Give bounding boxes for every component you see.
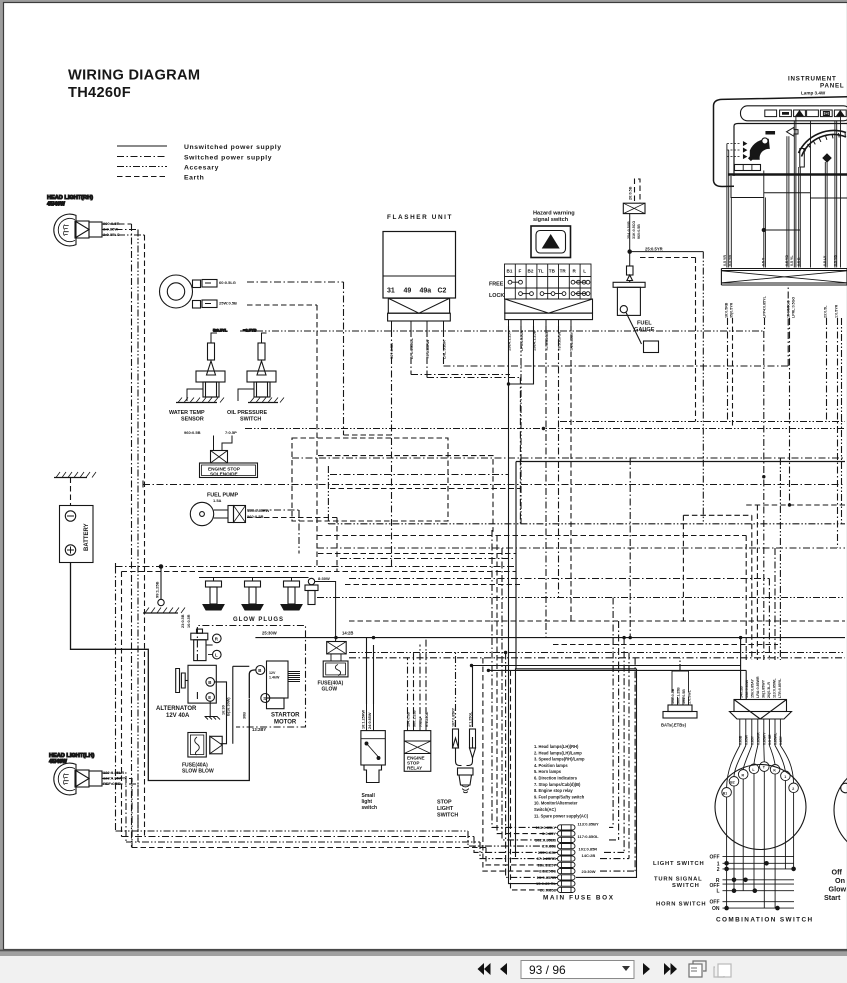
svg-text:60:0.5LG: 60:0.5LG [219, 280, 236, 285]
svg-text:Switched power supply: Switched power supply [184, 155, 272, 162]
wire earth y535 [317, 536, 746, 661]
svg-text:8. Engine stop relay: 8. Engine stop relay [534, 788, 573, 793]
svg-text:Earth: Earth [184, 175, 204, 182]
fuel pump [190, 493, 269, 526]
FREE row contacts [508, 280, 512, 284]
box startor (dash-dot outline) [197, 626, 305, 728]
svg-text:16:0.5R: 16:0.5R [187, 614, 191, 628]
svg-text:101:0.85R: 101:0.85R [579, 847, 598, 852]
stop light switch [437, 653, 476, 819]
svg-text:PANEL: PANEL [820, 83, 845, 90]
page number box [521, 961, 634, 979]
R L connector [181, 614, 221, 660]
svg-text:R: R [742, 773, 745, 777]
wire combination feeds [741, 638, 747, 700]
svg-text:156:0.85AY: 156:0.85AY [751, 679, 755, 698]
svg-text:FUEL: FUEL [637, 321, 652, 327]
wire switched y578 [349, 579, 769, 661]
wire sender top [635, 179, 641, 203]
wire y553 y558 [318, 553, 516, 555]
glow plug 3 [281, 581, 302, 610]
panel connector bar [721, 269, 847, 286]
wire accessory trunk y421 [560, 421, 845, 423]
switch position rows [723, 856, 795, 908]
glow plug 2 [242, 581, 263, 610]
wire accessory trunk y523 [328, 466, 845, 524]
inner display area [734, 124, 847, 177]
wire horn feed 2 [247, 305, 317, 567]
svg-text:0.85WL: 0.85WL [774, 732, 778, 745]
terminal circles [722, 762, 799, 797]
svg-text:960:0.5B: 960:0.5B [247, 514, 264, 519]
svg-text:25W:0.5B: 25W:0.5B [219, 301, 237, 306]
small light switch [361, 638, 385, 811]
svg-text:B1: B1 [723, 791, 727, 795]
svg-text:GLOW PLUGS: GLOW PLUGS [233, 617, 284, 623]
svg-text:2: 2 [717, 867, 720, 873]
wire startor to fuse slow blow [233, 666, 250, 743]
page view icon 1 [689, 961, 706, 977]
svg-text:8:30W: 8:30W [318, 576, 330, 581]
wire small light switch feeds [367, 704, 374, 731]
last-page button [664, 963, 677, 975]
wire earth bus y566 [116, 566, 517, 568]
svg-text:STARTOR: STARTOR [271, 713, 300, 719]
engine stop solenoid [184, 430, 258, 478]
svg-text:WATER TEMP: WATER TEMP [169, 410, 205, 416]
water temp sensor [169, 328, 228, 423]
key switch (clipped at right) [824, 764, 847, 902]
svg-text:0.5 YR: 0.5 YR [723, 255, 727, 266]
svg-text:Switch(AC): Switch(AC) [534, 807, 556, 812]
svg-text:7. Stop lamps/Cab(d)(B): 7. Stop lamps/Cab(d)(B) [534, 782, 581, 787]
svg-text:9. Fuel pump/Safty switch: 9. Fuel pump/Safty switch [534, 794, 585, 799]
svg-text:F: F [519, 269, 522, 274]
glow plug 4 [305, 578, 318, 604]
wire sensor line [240, 330, 764, 332]
oil pressure switch [227, 328, 284, 423]
legend [117, 144, 282, 182]
wire horn feed 1 [247, 282, 344, 435]
svg-text:TL: TL [538, 269, 544, 274]
wire earth y505 / y515 [683, 505, 845, 660]
svg-text:1:0.5WL: 1:0.5WL [688, 689, 692, 704]
terminal drops [727, 771, 794, 908]
svg-text:30B: 30B [243, 712, 247, 719]
svg-text:OFF: OFF [710, 900, 720, 906]
svg-text:93 / 96: 93 / 96 [529, 963, 566, 977]
toolbar strip [0, 956, 847, 983]
svg-text:31K:0.5CO: 31K:0.5CO [632, 221, 636, 239]
startor motor [256, 661, 300, 726]
svg-text:113:0.85BY: 113:0.85BY [578, 822, 599, 827]
page view icon 2 [714, 964, 731, 977]
svg-text:49: 49 [404, 288, 412, 295]
svg-text:FREE: FREE [489, 282, 504, 288]
svg-text:Hazard warning: Hazard warning [533, 211, 575, 217]
hazard contact table [505, 264, 592, 299]
svg-text:L: L [716, 889, 719, 895]
wire headlight RH drops [131, 224, 133, 848]
svg-text:Unswitched power supply: Unswitched power supply [184, 144, 282, 151]
svg-text:0.5 YB: 0.5 YB [728, 255, 732, 266]
hazard warning signal switch [489, 211, 593, 352]
speedometer arc [799, 131, 847, 153]
svg-text:OFF: OFF [710, 854, 720, 860]
fuses [558, 825, 576, 893]
svg-text:3. Speed lamps(RH)/Lamp: 3. Speed lamps(RH)/Lamp [534, 757, 585, 762]
svg-text:16:30: 16:30 [222, 705, 226, 715]
legend line: switched power supply [117, 156, 167, 158]
svg-text:49a: 49a [420, 288, 432, 295]
fuse row feeds from above [492, 530, 557, 827]
turn indicator arrow [787, 127, 799, 136]
svg-text:STOP: STOP [437, 800, 452, 806]
svg-text:10. Monitor/Altermeter: 10. Monitor/Altermeter [534, 801, 578, 806]
svg-text:LIGHT SWITCH: LIGHT SWITCH [653, 861, 704, 867]
instrument panel [714, 76, 847, 319]
svg-text:113:0.85WL: 113:0.85WL [773, 678, 777, 698]
LOCK row contacts [519, 292, 523, 296]
svg-text:12V: 12V [269, 671, 276, 675]
wire headlight LH feeds [102, 773, 138, 848]
wire engine stop relay feeds [408, 638, 427, 728]
svg-text:6. Direction indicators: 6. Direction indicators [534, 776, 578, 781]
svg-text:B2: B2 [528, 269, 534, 274]
wire earth y644 [553, 644, 778, 646]
fan wires into switch [727, 746, 794, 788]
svg-text:0.5 B: 0.5 B [797, 257, 801, 266]
svg-text:960:0.5B: 960:0.5B [184, 430, 201, 435]
horn [160, 275, 238, 308]
fuse (40A) glow [318, 642, 349, 693]
svg-text:FLASHER UNIT: FLASHER UNIT [387, 214, 453, 221]
svg-text:7:0.5P: 7:0.5P [225, 430, 237, 435]
svg-text:TH4260F: TH4260F [68, 85, 131, 101]
svg-text:25:0.5YR: 25:0.5YR [645, 247, 663, 252]
fuel gauge dial [750, 139, 770, 160]
fuse right label hooks [600, 598, 635, 872]
svg-text:5. Horn lamps: 5. Horn lamps [534, 769, 562, 774]
svg-text:E: E [208, 695, 211, 700]
svg-text:LPP4:0.85YL: LPP4:0.85YL [763, 295, 767, 318]
svg-text:LRA:0.85WR: LRA:0.85WR [756, 676, 760, 698]
svg-text:LPRL:0.5GO: LPRL:0.5GO [792, 297, 796, 318]
flasher unit [383, 214, 456, 359]
wire switched trunk y548 [317, 548, 845, 660]
svg-text:117:0.85GL: 117:0.85GL [578, 834, 600, 839]
svg-text:TB: TB [549, 269, 556, 274]
wire earth y621 [349, 620, 845, 622]
svg-text:99:1.25B: 99:1.25B [155, 581, 160, 598]
ground [176, 402, 217, 404]
svg-text:194:0.5B: 194:0.5B [682, 689, 686, 704]
svg-text:14C:2B: 14C:2B [582, 853, 596, 858]
svg-text:B: B [208, 680, 211, 685]
svg-text:23:30W: 23:30W [582, 869, 596, 874]
wire flasher drops [392, 285, 789, 567]
svg-text:0.5 YL: 0.5 YL [790, 255, 794, 266]
wire horn feed 1 tail [344, 434, 392, 436]
svg-text:LOCK: LOCK [489, 293, 504, 299]
svg-text:OIL PRESSURE: OIL PRESSURE [227, 410, 267, 416]
svg-text:TR: TR [560, 269, 567, 274]
svg-text:0.85B: 0.85B [739, 735, 743, 745]
svg-text:13:2BY: 13:2BY [252, 727, 266, 732]
svg-text:2. Head lamps(LH)/Lamp: 2. Head lamps(LH)/Lamp [534, 750, 582, 755]
svg-text:SOLENOIDE: SOLENOIDE [210, 472, 238, 477]
svg-text:GAUGE: GAUGE [634, 327, 655, 333]
svg-text:ON: ON [712, 906, 720, 912]
svg-text:BATTERY: BATTERY [84, 523, 90, 551]
svg-text:13A:0.85W: 13A:0.85W [745, 679, 749, 698]
main fuse box [516, 669, 637, 902]
wire earth y488 [330, 488, 520, 490]
svg-text:960:0.5B: 960:0.5B [637, 224, 641, 239]
fuse (40A) slow blow [182, 733, 222, 775]
head light RH [47, 195, 145, 246]
svg-text:GLOW: GLOW [322, 687, 338, 693]
svg-text:WIRING DIAGRAM: WIRING DIAGRAM [68, 68, 200, 84]
junction dots [334, 382, 791, 672]
svg-text:B(16:30W): B(16:30W) [227, 697, 231, 716]
svg-text:4. Position lamps: 4. Position lamps [534, 763, 568, 768]
wire switched y474 [330, 474, 509, 476]
svg-text:K: K [773, 768, 776, 772]
svg-text:11. Spare power supply(AC): 11. Spare power supply(AC) [534, 813, 589, 818]
indicator strip [741, 106, 847, 121]
panel shell [714, 97, 847, 181]
svg-text:1.4kW: 1.4kW [269, 676, 280, 680]
svg-text:L: L [583, 269, 586, 274]
svg-text:18:0.5RB: 18:0.5RB [725, 302, 729, 318]
ground (mid) [143, 565, 185, 613]
wire panel drops [728, 318, 838, 548]
small 3-box row [735, 165, 761, 171]
svg-text:26(0.3L.R: 26(0.3L.R [767, 682, 771, 698]
svg-text:switch: switch [362, 805, 378, 811]
wire alternator B to fuse [215, 682, 227, 744]
legend line: unswitched power supply [117, 145, 167, 147]
svg-text:MOTOR: MOTOR [274, 720, 297, 726]
svg-text:35(0.5YR: 35(0.5YR [730, 302, 734, 318]
svg-text:36(1.85WY: 36(1.85WY [762, 679, 766, 698]
wire fuel pump feeds [247, 510, 299, 554]
svg-text:1:0.5YR: 1:0.5YR [835, 304, 839, 318]
svg-text:ALTERNATOR: ALTERNATOR [156, 706, 197, 712]
svg-text:signal switch: signal switch [533, 217, 569, 223]
fuel gauge unit [613, 282, 645, 287]
head light LH [49, 753, 138, 848]
svg-text:0.85WR: 0.85WR [757, 732, 761, 745]
svg-text:14:2B: 14:2B [342, 631, 353, 636]
svg-text:B1: B1 [507, 269, 513, 274]
svg-text:1.5A: 1.5A [213, 498, 222, 503]
fuel gauge sender group [613, 179, 703, 353]
svg-text:SWITCH: SWITCH [672, 883, 700, 889]
svg-text:LIGHT: LIGHT [437, 806, 454, 812]
wire earth y584 [345, 584, 520, 586]
glow plugs [199, 576, 336, 642]
svg-text:HEAD LIGHT(RH): HEAD LIGHT(RH) [47, 195, 93, 201]
wire accessory trunk y428 [245, 428, 845, 430]
svg-text:0.85Y: 0.85Y [779, 735, 783, 745]
wire alternator E to ground [209, 701, 211, 716]
svg-text:10A:0.5B: 10A:0.5B [671, 688, 675, 704]
svg-text:FUEL PUMP: FUEL PUMP [207, 493, 238, 499]
svg-text:TURN SIGNAL: TURN SIGNAL [654, 877, 702, 883]
wire stop light switch feeds [455, 653, 457, 728]
wire switched trunk y484 [143, 481, 845, 489]
panel wires down [727, 117, 841, 268]
svg-text:INSTRUMENT: INSTRUMENT [788, 76, 837, 83]
svg-text:MAIN FUSE BOX: MAIN FUSE BOX [543, 895, 615, 902]
wire hazard drops [509, 326, 558, 884]
svg-text:25A:0.5YR: 25A:0.5YR [627, 221, 631, 239]
svg-text:0.5 YB: 0.5 YB [785, 255, 789, 266]
svg-text:S: S [263, 696, 266, 701]
svg-text:0.85W: 0.85W [745, 734, 749, 745]
bottom mesh rails [116, 831, 558, 846]
wire battery plus feed [71, 563, 250, 781]
svg-text:1: 1 [784, 775, 786, 779]
wire earth bus y571 [122, 571, 517, 573]
svg-text:0.85WY: 0.85WY [763, 732, 767, 745]
svg-text:B: B [258, 668, 261, 673]
svg-text:8:1.25GL: 8:1.25GL [469, 711, 473, 727]
svg-text:Accesary: Accesary [184, 165, 219, 172]
earth (top of battery) [54, 472, 96, 478]
svg-text:BATs(.ETBs): BATs(.ETBs) [661, 723, 687, 728]
svg-text:Start: Start [824, 893, 841, 902]
engine stop relay [404, 638, 431, 772]
svg-text:HORN SWITCH: HORN SWITCH [656, 902, 706, 908]
wire battery to startor [249, 670, 256, 698]
svg-text:0.5 LY: 0.5 LY [823, 255, 827, 266]
svg-text:=6.0YB: =6.0YB [243, 328, 257, 333]
switch body circle [715, 765, 806, 850]
svg-text:LTR:0.85YL: LTR:0.85YL [778, 678, 782, 698]
ground [248, 402, 278, 404]
svg-text:C2: C2 [438, 288, 447, 295]
wire unswitched feed y461 [516, 462, 845, 669]
first-page button [478, 963, 491, 975]
svg-text:SLOW BLOW: SLOW BLOW [182, 769, 214, 775]
svg-text:5:0.5YL: 5:0.5YL [213, 328, 228, 333]
svg-text:1. Head lamps(LH)(RH): 1. Head lamps(LH)(RH) [534, 744, 579, 749]
earth connector [661, 658, 697, 728]
wire switched trunk y458 [292, 457, 845, 459]
svg-text:SWITCH: SWITCH [437, 813, 458, 819]
combination connector [740, 676, 783, 698]
box dashed (solenoid/pump region) [292, 438, 448, 521]
wire earth bus drops (left) [115, 563, 117, 831]
svg-text:ENGINE STOP: ENGINE STOP [208, 466, 240, 471]
legend line: earth [117, 176, 167, 178]
svg-text:23:0.5L: 23:0.5L [824, 305, 828, 318]
svg-text:2: 2 [792, 787, 794, 791]
alternator [156, 665, 231, 719]
glow plug bus [199, 578, 309, 582]
svg-text:23:0.5B: 23:0.5B [181, 614, 185, 628]
svg-text:12V 40A: 12V 40A [166, 713, 190, 719]
svg-text:SWITCH: SWITCH [240, 417, 261, 423]
combination switch [653, 676, 814, 923]
svg-text:960:1.25B: 960:1.25B [677, 687, 681, 704]
wire battery earth [70, 478, 72, 506]
svg-text:10:1.25RW: 10:1.25RW [362, 709, 366, 729]
wire main feed 14:2B [255, 637, 845, 639]
svg-text:31: 31 [387, 288, 395, 295]
svg-text:0.5 Y: 0.5 Y [762, 257, 766, 266]
svg-text:0.5 YB: 0.5 YB [834, 255, 838, 266]
wire accessory y652 [349, 652, 845, 654]
next-page button [643, 963, 650, 975]
svg-text:B2: B2 [730, 780, 734, 784]
prev-page button [500, 963, 507, 975]
svg-text:0.85Y: 0.85Y [751, 735, 755, 745]
svg-text:L: L [215, 653, 218, 658]
wire solid y665 y670 [472, 666, 747, 671]
svg-text:25:30W: 25:30W [262, 631, 277, 636]
svg-text:187:0.85RY: 187:0.85RY [452, 707, 456, 727]
legend line: accessary [117, 166, 167, 168]
svg-text:45/40W: 45/40W [47, 202, 65, 208]
wire fuel gauge feeds [630, 251, 704, 253]
svg-text:0.5 SE: 0.5 SE [768, 734, 772, 745]
wire switched y657 [349, 657, 845, 659]
svg-text:Lamp 3.4W: Lamp 3.4W [801, 91, 826, 96]
svg-text:24:0.85W: 24:0.85W [368, 712, 372, 729]
glow plug 1 [203, 581, 224, 610]
svg-text:20:0.5B: 20:0.5B [629, 186, 633, 200]
svg-text:RELAY: RELAY [407, 766, 422, 771]
svg-text:COMBINATION SWITCH: COMBINATION SWITCH [716, 917, 814, 924]
wire fuel gauge drops [695, 258, 697, 422]
wire headlight RH feeds [102, 223, 132, 225]
wire accessory y597 [317, 597, 845, 599]
svg-text:SENSOR: SENSOR [181, 417, 204, 423]
battery [60, 506, 94, 563]
